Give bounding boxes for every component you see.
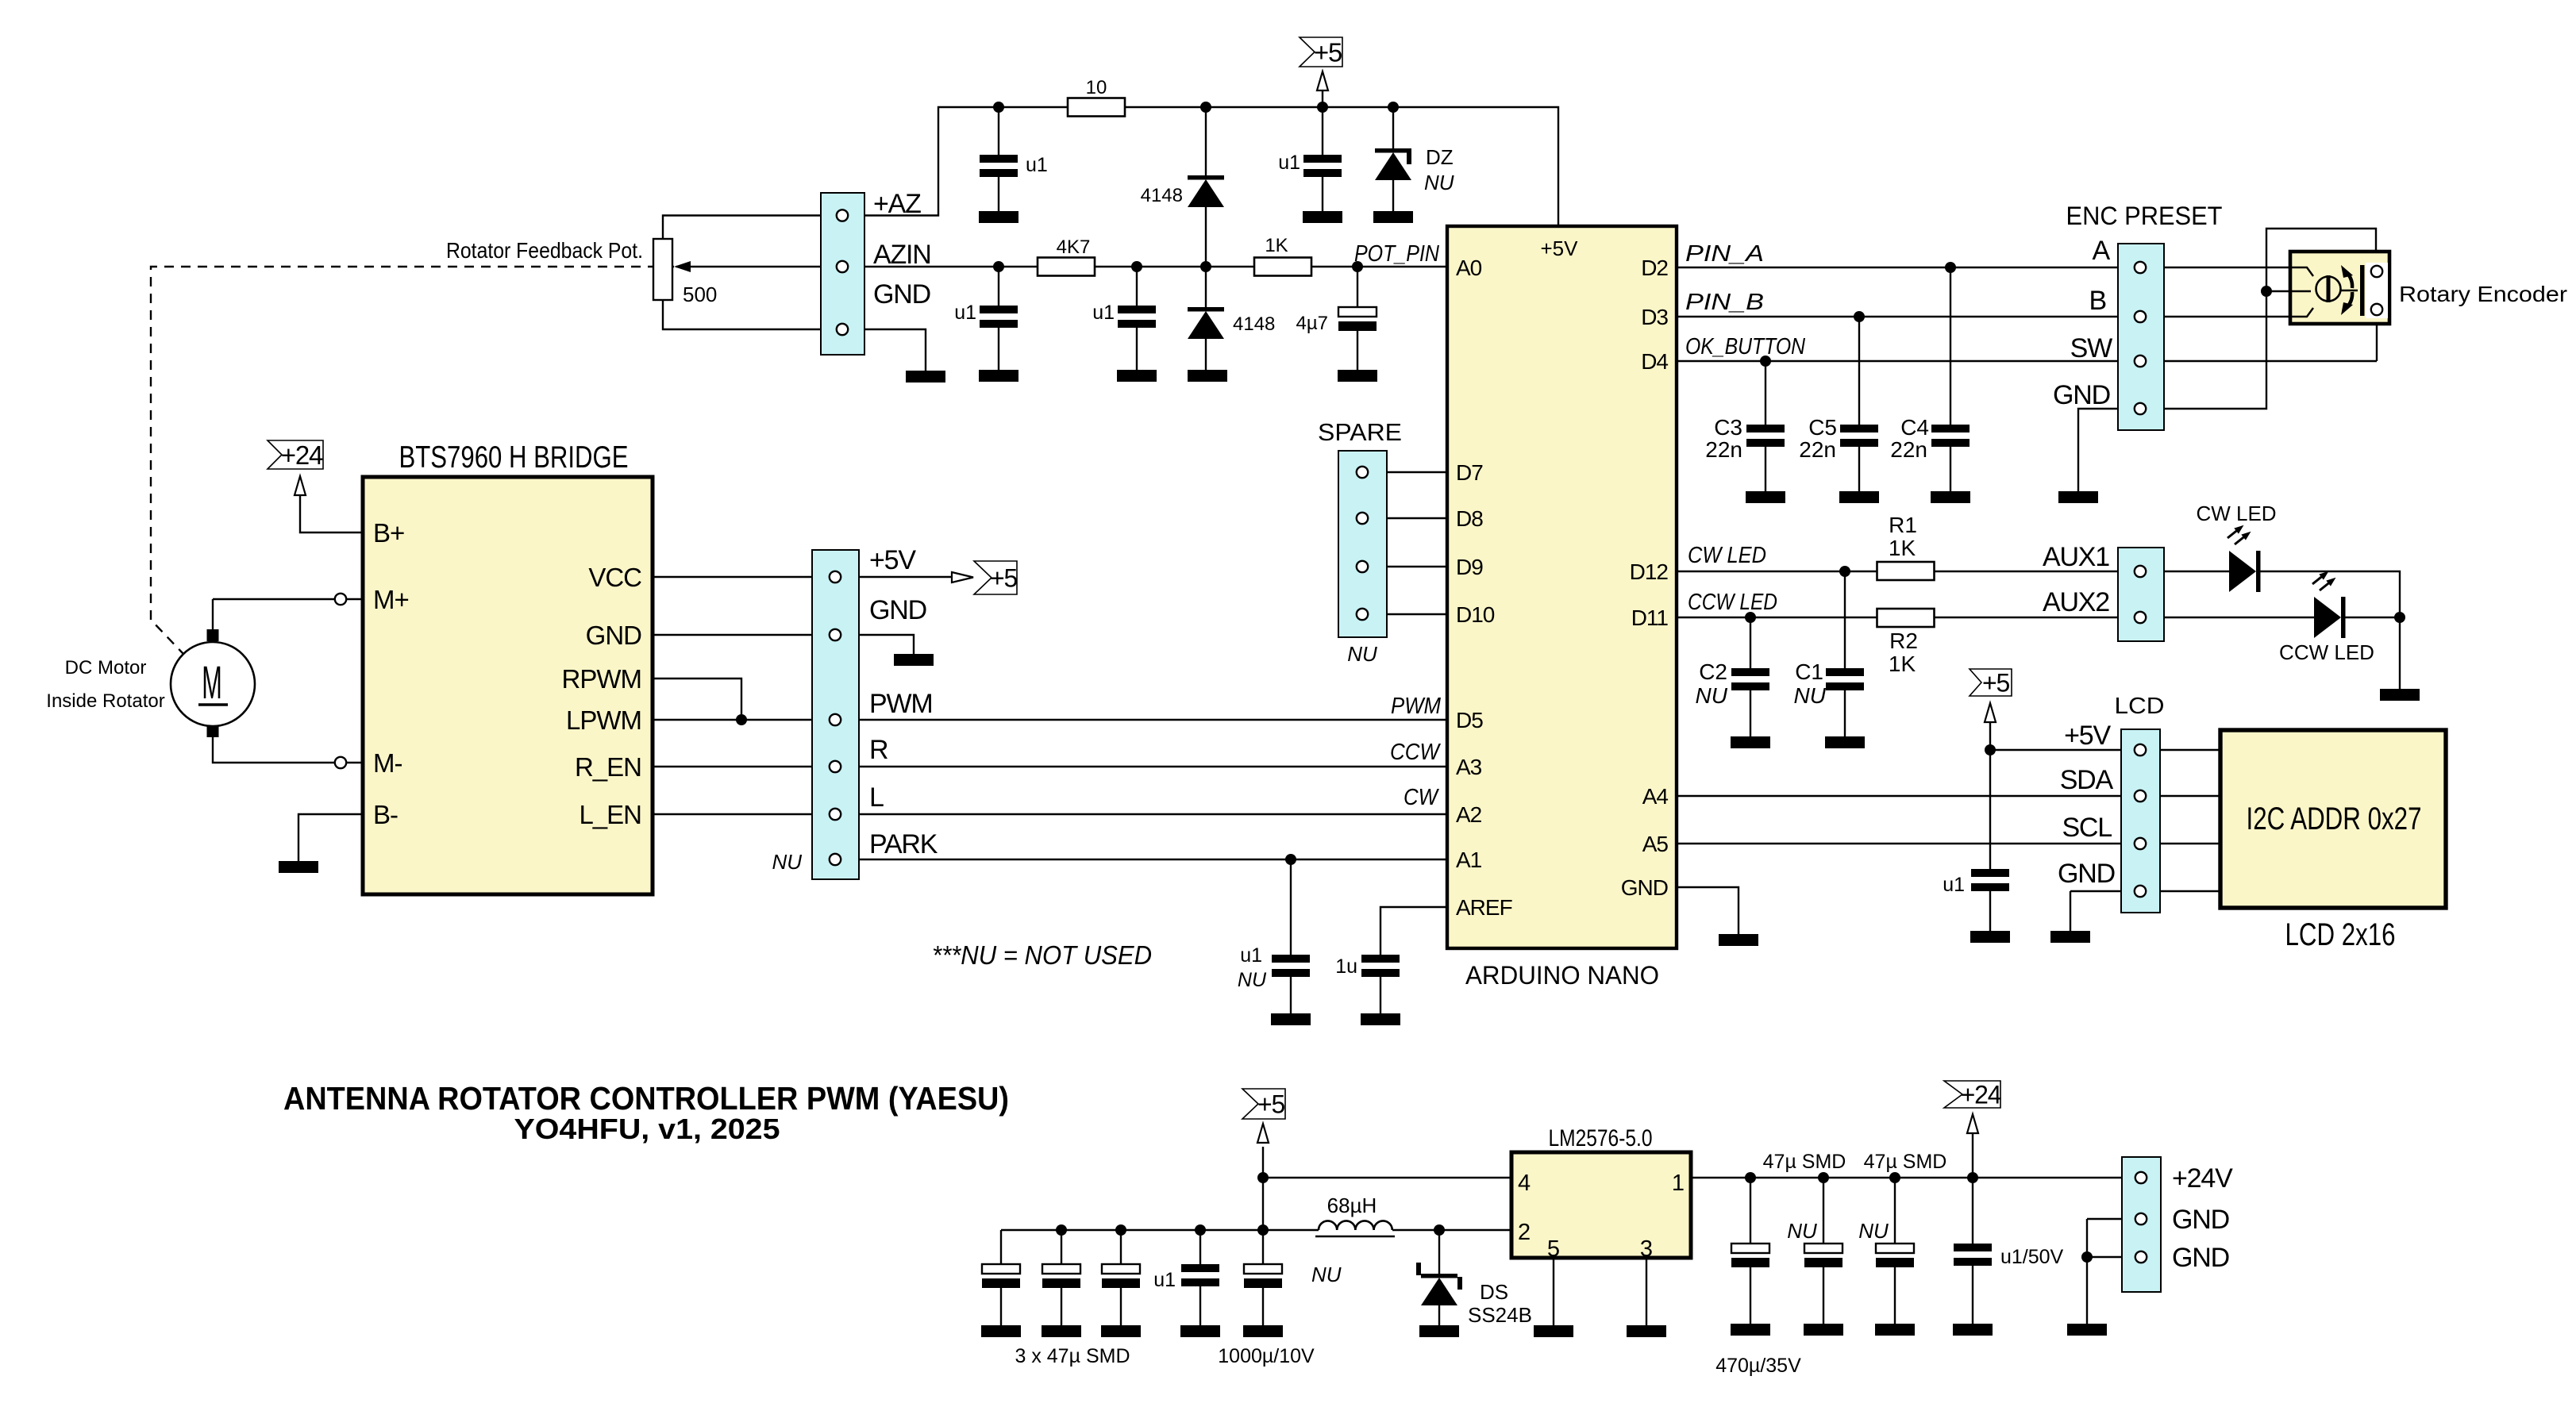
wire A4 SDA [1677,795,2220,797]
capacitor u1 top-right [1303,155,1342,177]
wire C4 to ground [1950,447,1951,491]
pin GND [837,324,848,335]
junction [993,261,1004,272]
wire R2 to CCW LED [1934,617,2314,618]
connector ENC PRESET A/B/SW/GND [2118,244,2164,430]
svg-text:M: M [202,656,222,708]
wire PIN_A D2 to encoder A [1677,267,2290,268]
wire D7 [1362,471,1447,473]
connector SPARE [1338,451,1387,637]
wire D12 to C1 [1844,571,1846,668]
svg-text:AREF: AREF [1456,895,1512,920]
svg-text:LCD 2x16: LCD 2x16 [2285,917,2396,952]
power arrow +5 LCD [1985,703,1996,722]
svg-text:PARK: PARK [869,829,938,859]
svg-text:M-: M- [373,748,402,778]
wire 47u NU a to ground [1823,1267,1824,1324]
connector LCD +5V/SDA/SCL/GND [2121,729,2160,913]
svg-text:4148: 4148 [1233,313,1275,335]
svg-text:DZ: DZ [1426,145,1454,169]
IC LM2576-5.0 box [1511,1152,1691,1258]
wire pin1 +24 rail [1691,1177,2122,1178]
wire CCW LED D11 to R2 [1677,617,1877,618]
ground C2 [1731,736,1770,748]
diode 4148 upper [1188,175,1224,207]
pin SPARE [1357,561,1368,572]
svg-text:AZIN: AZIN [873,240,931,270]
ground u1 top-left [979,211,1018,223]
capacitor u1 below AZIN left [980,306,1018,328]
svg-text:+AZ: +AZ [873,189,921,219]
wire OK_BUTTON D4 to encoder SW [1677,360,2377,362]
svg-text:+24V: +24V [2172,1163,2233,1194]
svg-text:Inside Rotator: Inside Rotator [46,690,164,712]
svg-text:22n: 22n [1890,437,1927,462]
capacitor C2 NU [1731,668,1769,690]
wire LEDs to ground [2399,617,2401,689]
svg-text:SCL: SCL [2062,813,2112,843]
wire PIN_B D3 to encoder B [1677,316,2290,317]
svg-text:POT_PIN: POT_PIN [1354,241,1439,267]
wire GND to ground [653,635,914,654]
capacitor u1 NU A1 [1272,955,1310,977]
svg-text:C4: C4 [1900,415,1929,440]
junction rail [1195,1224,1206,1236]
wire CW LED cathode to junction [2260,571,2400,617]
svg-text:NU: NU [1696,683,1728,708]
svg-text:D2: D2 [1641,256,1668,280]
wire SW riser [2376,315,2378,361]
ground 47u b [1875,1324,1915,1336]
wire DZ to ground [1392,180,1394,211]
wire rail to D 4148 top [1205,107,1207,175]
svg-text:+5: +5 [1982,669,2009,698]
wire +5V to LCD [1990,749,2220,751]
power flag +24 [268,440,323,470]
svg-text:4148: 4148 [1141,185,1183,206]
wire C 4u7 to ground [1357,331,1358,370]
pin +24V [2135,1172,2147,1183]
junction DS [1434,1224,1445,1236]
wire cap to ground [1120,1288,1122,1325]
svg-text:u1/50V: u1/50V [2000,1246,2064,1268]
svg-text:R: R [869,735,888,765]
resistor 4K7 [1038,258,1095,276]
wire 1u to ground [1380,977,1381,1013]
svg-text:PIN_B: PIN_B [1685,290,1764,315]
wire +AZ pin to +5 top rail to Arduino +5V [663,107,1558,239]
wire 1000u to ground [1262,1288,1264,1325]
connector AUX1/AUX2 [2118,548,2164,641]
capacitor 1u AREF [1361,955,1400,977]
wire AZIN from pot wiper to 4K7 [676,266,1038,267]
capacitor u1 LCD [1971,869,2009,891]
wire C u1 to ground [998,177,999,211]
wire M- stub [347,762,363,763]
ground u1 PSU [1180,1325,1220,1337]
capacitor 47u SMD 2 [1042,1264,1080,1288]
LED CW [2228,525,2261,592]
junction encoder common [2261,286,2272,297]
svg-text:LCD: LCD [2115,694,2165,719]
svg-text:PIN_A: PIN_A [1685,241,1764,267]
svg-text:u1: u1 [1153,1269,1176,1291]
svg-text:1K: 1K [1265,235,1288,256]
svg-text:NU: NU [1311,1263,1342,1286]
power arrow +5 PSU [1257,1124,1269,1143]
svg-text:u1: u1 [954,302,976,324]
svg-text:I2C ADDR 0x27: I2C ADDR 0x27 [2247,802,2422,836]
wire D8 [1362,517,1447,519]
wire D 4148 bottom to ground [1205,339,1207,370]
svg-text:GND: GND [2172,1205,2229,1235]
svg-text:NU: NU [1238,969,1267,991]
junction LED cathodes [2394,612,2405,623]
wire inductor to pin2 [1392,1229,1511,1231]
module LCD 2x16 box [2220,730,2446,908]
wire pin5 to ground [1553,1258,1554,1325]
wire RPWM jog [653,679,741,720]
svg-text:D12: D12 [1630,559,1669,584]
svg-text:1u: 1u [1335,955,1357,978]
wire rail to DZ [1392,107,1394,148]
ground ENC GND [2058,491,2098,503]
svg-text:Rotator Feedback Pot.: Rotator Feedback Pot. [446,238,643,263]
capacitor 47u SMD 1 [982,1264,1020,1288]
ground LCD GND [2050,931,2090,943]
wire M+ stub [347,598,363,600]
junction rail [1257,1224,1269,1236]
capacitor u1/50V [1954,1244,1992,1266]
wire Arduino GND to ground [1677,887,1739,934]
svg-text:D4: D4 [1641,349,1668,374]
wire rail to DS [1438,1230,1440,1274]
junction C3 [1760,356,1771,367]
wire encoder GND net [2078,229,2376,491]
pin LCD SDA [2135,790,2146,802]
power flag +5 PSU [1242,1089,1285,1119]
wire +24 flag column [1972,1133,1973,1178]
capacitor C3 22n [1746,425,1785,447]
svg-text:ENC PRESET: ENC PRESET [2066,202,2223,230]
wire to C3 [1765,361,1766,425]
wire pot bottom to GND pin to ground [663,300,926,371]
junction [1200,261,1211,272]
pin GND [2135,403,2146,414]
junction C1 [1839,566,1850,577]
wire rail to 47u NU a [1823,1178,1824,1244]
svg-text:1K: 1K [1889,536,1916,560]
capacitor C1 NU [1826,668,1864,690]
wire LCD GND drop [2070,891,2071,931]
wire R_EN R to A3 [653,766,1447,767]
pin encoder SW top [2371,266,2382,277]
pin +AZ [837,210,848,221]
svg-text:500: 500 [683,283,717,306]
svg-text:B: B [2089,286,2106,316]
wire u1 NU to ground [1290,977,1292,1013]
ground pin5 [1534,1325,1573,1337]
svg-text:u1: u1 [1092,302,1115,324]
pin AUX2 [2135,612,2146,623]
wire DS to ground [1438,1305,1440,1325]
svg-text:B-: B- [373,800,398,829]
svg-text:1K: 1K [1889,652,1916,676]
svg-text:A1: A1 [1456,848,1482,872]
svg-text:u1: u1 [1943,874,1965,896]
wire +5 column to u1 [1989,722,1991,869]
capacitor C5 22n [1840,425,1878,447]
svg-text:YO4HFU, v1, 2025: YO4HFU, v1, 2025 [514,1113,780,1145]
wire cap to ground [1000,1288,1002,1325]
capacitor 47u SMD NU a [1804,1244,1842,1267]
ground 1000u [1243,1325,1283,1337]
encoder switch [2341,263,2388,318]
pin SPARE [1357,609,1368,620]
ground cap [1101,1325,1141,1337]
svg-text:3 x 47µ SMD: 3 x 47µ SMD [1015,1345,1130,1367]
capacitor 1000u NU [1244,1264,1282,1288]
svg-text:CCW LED: CCW LED [1688,590,1777,615]
capacitor u1 top-left [980,155,1018,177]
svg-text:GND: GND [2058,859,2115,889]
svg-text:2: 2 [1518,1220,1531,1245]
ground u1 b [1117,370,1157,382]
svg-text:+5: +5 [1314,37,1342,67]
svg-text:A5: A5 [1642,832,1669,856]
svg-text:GND: GND [873,279,930,309]
svg-text:SS24B: SS24B [1468,1303,1532,1327]
junction GND pins [2081,1251,2093,1263]
ground C5 [1839,491,1879,503]
encoder rotation arrows [2341,265,2353,315]
ground J1 GND [906,371,945,383]
pin SPARE [1357,513,1368,524]
svg-text:47µ SMD: 47µ SMD [1864,1151,1947,1173]
pin B [2135,311,2146,322]
junction rail [1115,1224,1126,1236]
svg-text:OK_BUTTON: OK_BUTTON [1685,334,1805,359]
wire rail to cap [1000,1230,1002,1264]
junction [1131,261,1142,272]
ground C1 [1825,736,1865,748]
svg-text:NU: NU [772,850,802,874]
connector +AZ/AZIN/GND [821,193,864,355]
svg-text:D7: D7 [1456,460,1483,485]
svg-text:1000µ/10V: 1000µ/10V [1218,1345,1315,1367]
svg-text:L: L [869,782,884,813]
wire encoder common stub [2266,290,2290,292]
encoder shaft circle [2316,275,2341,302]
junction +24 rail [1818,1172,1829,1183]
ground u1 LCD [1970,931,2010,943]
svg-text:SW: SW [2070,333,2112,363]
wire C5 to ground [1858,447,1860,491]
wire rail to 470u [1750,1178,1751,1244]
wire M+ to motor [213,598,334,600]
connector +24V/GND/GND [2122,1157,2161,1292]
wire GND1 [2087,1218,2122,1220]
wire D10 [1362,613,1447,615]
wire u1 to ground [1199,1286,1201,1325]
svg-text:4: 4 [1518,1171,1531,1196]
ground 47u a [1804,1324,1843,1336]
svg-text:NU: NU [1347,642,1377,666]
power arrow +24 [295,476,306,495]
svg-text:+5: +5 [990,564,1017,593]
junction C5 [1854,311,1865,322]
ground LEDs [2380,689,2420,701]
svg-text:470µ/35V: 470µ/35V [1715,1355,1801,1377]
svg-text:RPWM: RPWM [562,664,641,694]
svg-text:R1: R1 [1889,513,1917,537]
ground 1u [1361,1013,1400,1025]
svg-text:M+: M+ [373,585,409,614]
connector +5V/GND/PWM/R/L/PARK [812,550,859,879]
wire +5 column PSU [1262,1147,1264,1264]
svg-text:C2: C2 [1699,659,1727,684]
wire rail to u1 [1199,1230,1201,1264]
motor terminal square bottom [207,725,219,737]
svg-text:LPWM: LPWM [566,705,641,735]
pin LCD +5V [2135,744,2146,755]
junction [993,102,1004,113]
resistor R1 1K [1877,562,1935,580]
svg-text:CW LED: CW LED [2196,502,2276,525]
ground DZ [1373,211,1413,223]
wire AREF to 1u [1380,907,1447,955]
svg-text:4µ7: 4µ7 [1296,313,1328,334]
pin M+ open [335,594,346,605]
ground u1 a [979,370,1018,382]
wire +24 to B+ [300,495,363,532]
capacitor 47u SMD NU b [1876,1244,1914,1267]
svg-text:SPARE: SPARE [1318,418,1402,446]
LED CCW [2312,571,2346,638]
svg-text:NU: NU [1424,171,1454,194]
svg-text:R2: R2 [1889,629,1918,653]
IC BTS7960 H-bridge box [363,477,653,894]
wire R1 to CW LED [1934,571,2229,572]
junction +5 pin4 [1257,1172,1269,1183]
pin GND2 [2135,1251,2147,1263]
svg-text:+5V: +5V [869,545,916,575]
ground C4 [1931,491,1970,503]
junction C4 [1945,262,1956,273]
ground u1 top-right [1303,211,1342,223]
ground J2 GND [894,654,934,666]
wire C3 to ground [1765,447,1766,491]
wire C2 to ground [1750,690,1751,736]
pin PWM [830,714,841,725]
zener diode DZ [1375,148,1411,180]
svg-text:+24: +24 [281,440,323,470]
junction +24 rail [1967,1172,1978,1183]
pin GND [830,629,841,640]
ground pin3 [1627,1325,1666,1337]
junction A1 cap [1285,854,1296,865]
wire rail to cap [1061,1230,1062,1264]
wire D11 to C2 [1750,617,1751,668]
ground u1 NU [1271,1013,1311,1025]
svg-text:SDA: SDA [2060,765,2114,795]
resistor 10 [1068,98,1125,117]
pin AUX1 [2135,566,2146,577]
wire rail to C u1 [998,107,999,155]
ground 4u7 [1338,370,1377,382]
svg-text:CW: CW [1404,785,1439,810]
junction C2 [1745,612,1756,623]
svg-text:VCC: VCC [588,563,641,592]
svg-text:GND: GND [1621,875,1668,900]
svg-text:u1: u1 [1240,944,1262,967]
wire pin4 feedback [1263,1177,1511,1178]
wire cap to ground [1061,1288,1062,1325]
wire VCC to +5V [653,576,952,578]
svg-text:1: 1 [1672,1171,1685,1196]
wire rail to cap [1120,1230,1122,1264]
svg-text:CCW LED: CCW LED [2279,640,2374,664]
capacitor C4 22n [1931,425,1970,447]
junction [1200,102,1211,113]
junction [1388,102,1399,113]
power flag +24 PSU [1944,1081,2001,1109]
svg-text:A3: A3 [1456,755,1482,779]
ground PSU connector [2067,1324,2107,1336]
pin M- open [335,757,346,768]
potentiometer wiper arrow [674,261,691,272]
svg-text:A: A [2093,236,2111,266]
wire L_EN L to A2 [653,813,1447,815]
ground Arduino [1719,934,1758,946]
svg-text:u1: u1 [1026,154,1048,176]
svg-text:DC Motor: DC Motor [65,657,147,679]
pin encoder SW bottom [2371,304,2382,315]
svg-text:A4: A4 [1642,784,1669,809]
ground 4148 [1188,370,1227,382]
junction RPWM-LPWM [736,714,747,725]
wire PARK to A1 [835,859,1447,860]
wire LCD GND [2070,890,2220,892]
wire 47u NU b to ground [1894,1267,1896,1324]
svg-text:GND: GND [2053,380,2110,410]
svg-text:10: 10 [1086,77,1107,98]
pin LCD GND [2135,886,2146,897]
wire motor top lead [212,599,214,629]
svg-text:R_EN: R_EN [575,752,641,782]
svg-text:DS: DS [1480,1280,1508,1304]
capacitor 470u/35V [1731,1244,1769,1267]
pin SW [2135,356,2146,367]
wire C1 to ground [1844,690,1846,736]
wire rail to C u1 right [1322,107,1323,155]
pin AZIN [837,261,848,272]
wire AZIN to C u1 a [998,267,999,306]
DC motor M [171,642,255,726]
svg-text:22n: 22n [1705,437,1742,462]
motor terminal square top [207,629,219,641]
power arrow +24 PSU [1967,1114,1978,1133]
IC Arduino Nano box [1447,226,1677,948]
svg-text:B+: B+ [373,518,404,548]
ground cap [1042,1325,1081,1337]
power flag +5 top [1300,37,1342,67]
svg-text:A0: A0 [1456,256,1482,280]
wire AZIN between 4K7 and 1K [1095,266,1254,267]
svg-text:+5V: +5V [2064,721,2111,751]
svg-text:LM2576-5.0: LM2576-5.0 [1549,1125,1653,1151]
wire D 4148 top to AZIN [1205,207,1207,267]
